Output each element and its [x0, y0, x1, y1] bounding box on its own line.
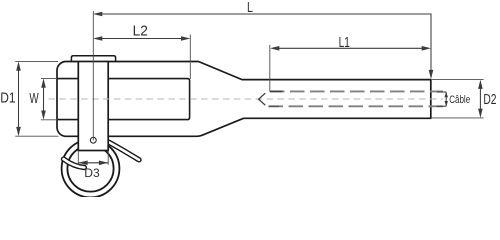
- dimension W line: [43, 87, 45, 112]
- split ring left wire end: [64, 159, 85, 168]
- split ring outer circle: [62, 140, 120, 198]
- cable diameter bracket top tick: [437, 91, 447, 93]
- svg-text:D1: D1: [0, 91, 15, 107]
- D2 bottom extension line: [432, 117, 484, 119]
- D2 top extension line: [432, 79, 484, 81]
- dimension L1 line: [279, 47, 423, 49]
- D3 left extension line: [77, 151, 79, 165]
- svg-text:L1: L1: [339, 35, 350, 51]
- W top extension line: [41, 77, 58, 79]
- svg-text:L2: L2: [133, 24, 148, 40]
- dimension D1 line: [18, 70, 20, 129]
- dimension L1 right arrow: [422, 46, 431, 51]
- dimension L left arrow: [93, 12, 102, 17]
- svg-text:D2: D2: [483, 92, 496, 108]
- horizontal centerline (axis): [49, 98, 444, 100]
- dimension L2 line: [102, 38, 183, 40]
- clevis pin shaft: [78, 61, 108, 150]
- cable end stub (solid) top: [270, 90, 283, 92]
- dimension L1 left arrow: [270, 46, 279, 51]
- cable pointed end chevron: [259, 93, 266, 105]
- cable bottom edge (hidden, dashed): [269, 105, 444, 107]
- split ring inner circle: [67, 145, 113, 191]
- dimension L line: [102, 14, 432, 71]
- D1 top extension line: [15, 60, 58, 62]
- cable end stub (solid) bottom: [269, 105, 280, 107]
- pin vertical centerline / extension line for L and L2: [92, 11, 94, 140]
- dimension L down arrow at tube end: [429, 70, 434, 79]
- L2 extension line at slot end: [189, 35, 191, 80]
- cable top edge (hidden, dashed): [270, 90, 443, 92]
- dimension D3 right arrow: [99, 161, 108, 166]
- split ring tail wire end: [107, 141, 140, 160]
- terminal body outline (fork + taper + swage tube): [57, 62, 431, 137]
- D1 bottom extension line: [15, 135, 58, 137]
- dimension D1 top arrow: [16, 61, 21, 70]
- svg-text:L: L: [247, 0, 253, 16]
- cable diameter bracket vertical: [445, 92, 447, 106]
- svg-text:W: W: [29, 91, 39, 107]
- dimension D1 bottom arrow: [16, 127, 21, 136]
- D3 right extension line: [107, 151, 109, 165]
- dimension W bottom arrow: [41, 111, 46, 120]
- dimension L2 right arrow: [181, 36, 190, 41]
- dimension D2 line: [479, 88, 481, 110]
- cable diameter bracket up arrow: [444, 92, 448, 97]
- fork slot (jaw opening) edges: [58, 79, 190, 120]
- cable diameter bracket bottom tick: [437, 105, 447, 107]
- W bottom extension line: [41, 119, 58, 121]
- dimension W top arrow: [41, 78, 46, 87]
- cotter pin hole in pin: [90, 137, 96, 143]
- cable diameter bracket down arrow: [444, 101, 448, 106]
- dimension D3 left arrow: [78, 161, 87, 166]
- dimension D2 bottom arrow: [478, 109, 483, 118]
- svg-text:Câble: Câble: [449, 94, 470, 106]
- dimension D3 line: [78, 162, 108, 164]
- dimension D2 top arrow: [478, 80, 483, 89]
- L1 extension line at cable end: [269, 45, 271, 91]
- svg-text:D3: D3: [84, 166, 100, 180]
- clevis pin head: [71, 56, 115, 62]
- dimension L2 left arrow: [93, 36, 102, 41]
